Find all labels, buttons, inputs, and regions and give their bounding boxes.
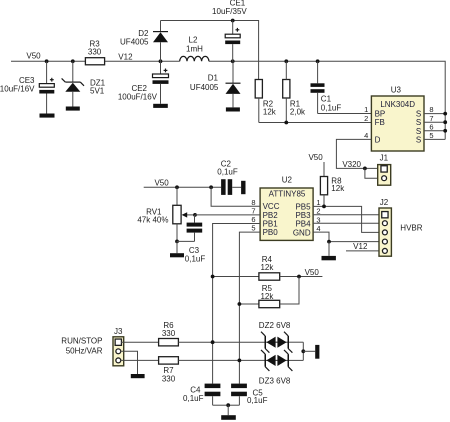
wire R6 to DZ2 — [178, 341, 265, 343]
svg-text:50Hz/VAR: 50Hz/VAR — [66, 347, 103, 356]
wire PB0 net U2 pin 5 down (wire B) — [239, 232, 260, 384]
resistor R2 12k — [255, 80, 277, 123]
svg-text:0,1uF: 0,1uF — [321, 103, 342, 112]
svg-text:100uF/16V: 100uF/16V — [118, 93, 158, 102]
svg-text:FB: FB — [375, 118, 385, 127]
wire V50 stub to R8 — [323, 162, 325, 177]
svg-text:PB0: PB0 — [263, 228, 279, 237]
capacitor C3 0,1uF — [177, 215, 205, 263]
svg-text:5: 5 — [251, 224, 255, 233]
svg-text:0,1uF: 0,1uF — [247, 396, 268, 405]
svg-text:8: 8 — [251, 198, 255, 207]
svg-text:4: 4 — [316, 224, 320, 233]
ground U2 GND — [322, 242, 336, 261]
svg-text:GND: GND — [293, 228, 311, 237]
capacitor C1 0,1uF — [311, 61, 342, 113]
wire FB net R2/R1 to U3 pin 2 — [259, 122, 372, 124]
svg-text:5V1: 5V1 — [90, 86, 105, 95]
resistor R6 330 — [159, 321, 179, 346]
wire PB2 net wiper to U2 pin 7 — [195, 214, 260, 216]
svg-text:330: 330 — [162, 329, 176, 338]
svg-text:PB1: PB1 — [263, 220, 279, 229]
ground RV1/C3 — [170, 241, 184, 257]
junction wire B at R7/DZ3 row — [238, 359, 242, 363]
wire PB1 net U2 pin 6 down (wire A) — [213, 224, 261, 384]
resistor R1 2,0k — [283, 61, 306, 122]
junction wire B at R5 — [238, 302, 242, 306]
potentiometer RV1 47k 40% — [137, 187, 195, 241]
svg-text:330: 330 — [162, 374, 176, 383]
junction main rail at R1 — [284, 59, 288, 63]
svg-text:S: S — [416, 135, 421, 144]
ground D1 — [226, 107, 240, 111]
junction S pin 8 — [443, 112, 447, 116]
svg-text:DZ3 6V8: DZ3 6V8 — [259, 377, 291, 386]
svg-text:DZ2 6V8: DZ2 6V8 — [259, 321, 291, 330]
node RUN/STOP 50Hz/VAR label — [61, 337, 102, 356]
wire J3 pin 1 to R6 — [121, 341, 159, 343]
wire PB5 net U2 pin 1 via R8 to J2 pin 3 — [313, 206, 383, 232]
junction RV1 wiper / C3 / PB2 — [193, 213, 197, 217]
junction PB5 at R8 — [322, 205, 326, 209]
zener pair DZ3 6V8 — [259, 350, 303, 386]
junction wire A at R6/DZ2 row — [211, 340, 215, 344]
resistor R4 12k — [213, 255, 323, 280]
svg-text:V12: V12 — [353, 242, 368, 251]
svg-text:LNK304D: LNK304D — [380, 100, 415, 109]
svg-text:PB4: PB4 — [295, 220, 311, 229]
svg-text:VCC: VCC — [263, 202, 280, 211]
svg-text:5: 5 — [429, 131, 433, 140]
svg-text:V12: V12 — [118, 52, 133, 61]
junction wire A at R4 — [211, 275, 215, 279]
capacitor CE2 100uF/16V — [118, 61, 169, 104]
wire main rail V50 to R3 — [11, 60, 85, 62]
svg-text:V50: V50 — [308, 153, 323, 162]
wire PB3 net U2 pin 2 to J2 pin 1 — [313, 214, 382, 216]
svg-text:UF4005: UF4005 — [190, 83, 219, 92]
junction V320 at J1 — [363, 167, 367, 171]
svg-text:12k: 12k — [331, 184, 345, 193]
wire R7 to DZ3 — [178, 359, 265, 361]
connector J2 HVBR — [379, 198, 423, 256]
junction FB net at R1 — [284, 121, 288, 125]
wire PB4 net U2 pin 3 to J2 pin 2 — [313, 222, 383, 224]
svg-text:2: 2 — [364, 114, 368, 123]
svg-text:330: 330 — [88, 48, 102, 57]
svg-text:C1: C1 — [321, 95, 332, 104]
svg-text:UF4005: UF4005 — [120, 38, 149, 47]
junction top rail at CE1 — [231, 19, 235, 23]
junction main rail at DZ1 — [71, 59, 75, 63]
svg-text:V50: V50 — [305, 268, 320, 277]
op-amp U2 ATTINY85 (IC body) — [260, 176, 313, 241]
wire V320 branch to J1 pin 2 — [365, 168, 382, 178]
ground C4/C5 — [221, 405, 236, 420]
junction S pin 6 — [443, 129, 447, 133]
wire J3 pin 2 to ground — [120, 351, 137, 374]
svg-text:J3: J3 — [114, 327, 123, 336]
capacitor C5 0,1uF — [228, 384, 267, 406]
svg-text:12k: 12k — [260, 292, 274, 301]
connector J3 — [113, 327, 124, 366]
ground DZ1 — [66, 107, 80, 111]
junction main rail at C1 — [316, 59, 320, 63]
inductor L2 1mH — [180, 36, 209, 62]
diode D1 UF4005 — [190, 61, 241, 107]
svg-text:0,1uF: 0,1uF — [217, 168, 238, 177]
junction RV1 bottom / C3 bottom — [175, 240, 179, 244]
svg-text:10uF/16V: 10uF/16V — [0, 85, 35, 94]
pin 7 S stub U3 — [424, 121, 445, 123]
svg-text:2,0k: 2,0k — [290, 107, 306, 116]
svg-text:HVBR: HVBR — [400, 223, 422, 232]
wire DZ2/DZ3 right tie — [302, 342, 304, 360]
junction DZ right tie — [301, 349, 305, 353]
wire V12 stub to J2 pin 5 — [346, 250, 383, 252]
svg-text:0,1uF: 0,1uF — [183, 394, 204, 403]
resistor R5 12k — [239, 277, 299, 308]
ground CE2 — [153, 104, 168, 108]
svg-text:10uF/35V: 10uF/35V — [212, 7, 247, 16]
junction R4/R5 right at V50 — [297, 275, 301, 279]
svg-text:L2: L2 — [189, 36, 198, 45]
svg-text:47k 40%: 47k 40% — [137, 215, 168, 224]
resistor R3 330 — [85, 39, 104, 64]
svg-text:U2: U2 — [282, 176, 293, 185]
junction main rail at CE3 — [45, 59, 49, 63]
svg-text:1: 1 — [316, 198, 320, 207]
svg-text:0,1uF: 0,1uF — [185, 254, 206, 263]
op-amp U3 LNK304D (IC body) — [371, 85, 424, 151]
junction C4/C5 ground — [226, 403, 230, 407]
svg-text:RUN/STOP: RUN/STOP — [61, 337, 102, 346]
svg-text:12k: 12k — [260, 263, 274, 272]
svg-text:V50: V50 — [26, 52, 41, 61]
wire top rail from D2 top to R2 (crosses main rail, no junction) — [161, 21, 259, 80]
junction main rail at CE1 — [231, 59, 235, 63]
junction S pin 7 — [443, 120, 447, 124]
ground CE3 — [40, 114, 55, 118]
svg-text:V50: V50 — [154, 178, 169, 187]
wire BP net C1 to U3 pin 1 — [318, 113, 372, 115]
ground C2 (side bar) — [241, 181, 245, 194]
pin 6 S stub U3 — [424, 130, 445, 132]
junction GND net — [327, 240, 331, 244]
resistor R7 330 — [159, 357, 179, 384]
zener diode DZ1 5V1 — [62, 61, 106, 106]
svg-text:ATTINY85: ATTINY85 — [269, 190, 306, 199]
pin 5 S stub U3 — [424, 138, 445, 140]
svg-text:12k: 12k — [263, 107, 277, 116]
connector J1 — [378, 153, 391, 185]
ground J3 pin 2 — [131, 374, 145, 378]
wire VCC net V50 to U2 pin 8 — [211, 187, 260, 206]
capacitor CE3 10uF/16V — [0, 61, 54, 113]
svg-text:J1: J1 — [380, 153, 389, 162]
wire U3 pin 4 D to J1 / node V320 — [336, 139, 380, 168]
zener pair DZ2 6V8 — [259, 321, 303, 353]
svg-text:D: D — [375, 135, 381, 144]
wire GND net U2 pin 4 to J2 pin 4 — [313, 232, 383, 242]
svg-text:U3: U3 — [391, 85, 402, 94]
wire main rail R3 to L2 — [105, 60, 180, 62]
capacitor C4 0,1uF — [183, 384, 228, 406]
svg-text:J2: J2 — [380, 198, 389, 207]
junction V50 at VCC/C2 — [209, 185, 213, 189]
junction V50 at RV1 — [175, 185, 179, 189]
svg-text:4: 4 — [364, 131, 368, 140]
diode D2 UF4005 — [120, 21, 168, 62]
resistor R8 12k — [320, 177, 345, 207]
ground DZ2/DZ3 (side bar) — [315, 345, 319, 359]
svg-text:1mH: 1mH — [186, 45, 203, 54]
svg-text:V320: V320 — [342, 160, 361, 169]
capacitor CE1 10uF/35V — [212, 0, 247, 61]
svg-text:PB5: PB5 — [295, 202, 311, 211]
wire tie to ground bar — [303, 350, 315, 352]
wire V50 rail to C2 — [144, 186, 221, 188]
svg-text:D1: D1 — [208, 73, 219, 82]
capacitor C2 0,1uF — [217, 159, 241, 195]
wire J3 pin 3 to R7 — [120, 359, 158, 361]
pin 8 S stub U3 — [424, 113, 445, 115]
junction main rail at D2/CE2 — [159, 59, 163, 63]
wire main rail L2 to right corner, down to U3 source pins — [209, 61, 445, 139]
